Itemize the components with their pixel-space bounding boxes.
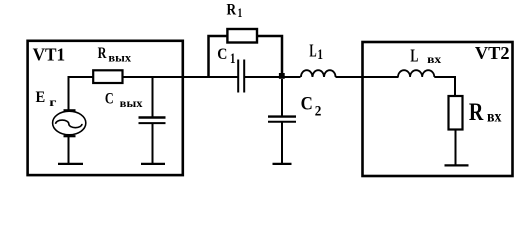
capacitor Cvykh top plate [139,116,166,118]
svg-text:2: 2 [315,103,322,119]
wire C2 lower [281,122,283,163]
svg-text:вх: вх [427,52,441,66]
svg-text:вх: вх [487,108,501,125]
wire L1 to Lvkh [336,76,399,78]
svg-text:VT2: VT2 [475,43,510,63]
node junction (filled square) [279,73,285,79]
wire Eg bottom [68,136,70,163]
wire Rvkh lower [455,130,457,166]
capacitor C2 top plate [268,115,296,117]
capacitor Cvykh bottom plate [139,122,166,124]
wire C1 to node [244,76,301,78]
box VT2 (transistor stage 2 enclosure) [363,42,513,176]
terminal bar under Eg [58,163,83,165]
resistor Rvkh [449,96,463,130]
terminal bar under Cvykh [141,163,165,165]
wire Eg top to Rvykh [69,77,95,110]
capacitor C1 right plate [243,60,245,93]
svg-text:г: г [49,95,57,109]
svg-text:VT1: VT1 [33,44,66,64]
svg-text:R: R [98,45,107,62]
svg-text:R: R [469,99,484,126]
svg-text:R: R [227,1,237,18]
wire Lvkh to Rvkh corner [434,77,455,97]
svg-text:C: C [217,46,227,63]
svg-text:C: C [105,91,114,108]
box VT1 (transistor stage 1 enclosure) [28,41,183,175]
svg-text:L: L [410,46,418,66]
AC source Eg terminal bar top [64,109,76,111]
svg-text:вых: вых [108,52,131,64]
svg-text:E: E [36,89,46,106]
wire Cvykh branch upper [152,77,154,117]
svg-text:1: 1 [317,47,323,63]
resistor R_vykh [93,70,122,83]
AC source Eg sine wave [56,120,82,128]
capacitor C1 left plate [237,60,239,93]
inductor L1 [301,70,336,77]
wire node to C2 [281,79,283,116]
resistor R1 [227,29,257,43]
AC source Eg circle [53,111,86,135]
svg-text:L: L [309,41,316,61]
wire Cvykh branch lower [152,124,154,164]
terminal bar under Rvkh [445,164,469,166]
inductor Lvkh [398,70,434,77]
capacitor C2 bottom plate [268,121,296,123]
AC source Eg terminal bar bottom [64,135,76,137]
svg-text:C: C [301,95,313,115]
svg-text:вых: вых [120,98,143,110]
wire Rvykh to C1 (main line) [122,76,240,78]
svg-text:1: 1 [230,51,235,67]
svg-text:1: 1 [238,6,243,20]
terminal bar under C2 [273,163,292,165]
wire R1 branch left [209,36,229,78]
wire R1 branch right [257,36,283,74]
